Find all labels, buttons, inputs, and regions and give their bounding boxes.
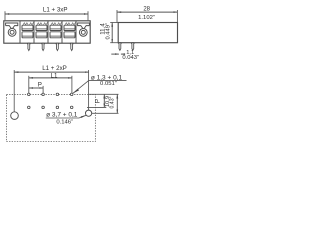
solder hole row2 pin4 (70, 106, 73, 109)
svg-text:P: P (94, 99, 101, 103)
extension line left (116, 10, 118, 23)
left flange screw hole inner (10, 30, 14, 34)
svg-text:0.051”: 0.051” (100, 81, 117, 87)
svg-text:L1 + 2xP: L1 + 2xP (42, 65, 67, 72)
svg-text:0.146”: 0.146” (56, 119, 73, 125)
extension line right to mounting hole (88, 70, 90, 110)
leader dia 1,3 diagonal (73, 80, 89, 93)
pole 3 clamp details (50, 23, 63, 38)
solder pin 3 front (56, 43, 60, 50)
connector body outline (4, 21, 90, 43)
svg-text:0.043”: 0.043” (122, 55, 139, 61)
mounting hole right (86, 110, 92, 116)
solder hole row2 pin1 (28, 106, 31, 109)
dimension line L1 (29, 77, 72, 79)
solder pin 1 front (27, 43, 31, 50)
extension line left (4, 11, 6, 20)
svg-text:0.449”: 0.449” (105, 23, 111, 40)
pole divider 3 (47, 21, 49, 43)
extension line bottom for 11,4 (110, 42, 118, 44)
left flange banner (6, 23, 18, 28)
extension line L1 left (28, 76, 30, 93)
pole divider 2 (33, 21, 35, 43)
right flange banner (78, 23, 90, 28)
right side extension row1 (88, 93, 118, 95)
dimension line 10,9 vertical (116, 94, 118, 113)
pole 2 clamp details (36, 23, 49, 38)
extension line L1 right (71, 76, 73, 93)
dimension 1,1 arrows (111, 53, 119, 55)
solder hole row1 pin2 (42, 93, 45, 96)
dashed board outline (7, 94, 96, 141)
pole divider 1 (19, 21, 21, 43)
pole 4 clamp details (64, 23, 77, 38)
side pin row 1 (118, 43, 121, 51)
mounting hole left (11, 112, 19, 120)
extension line left to mounting hole (13, 70, 15, 112)
right side extension row2 (87, 106, 106, 108)
right side extension mounting hole (92, 112, 119, 114)
dimension line P (29, 87, 43, 89)
solder hole row1 pin4 (70, 93, 73, 96)
leader dia 3,7 underline (46, 117, 79, 119)
svg-text:P: P (38, 81, 42, 88)
solder hole row2 pin3 (56, 106, 59, 109)
pole 1 clamp details (22, 23, 35, 38)
svg-text:ø 3,7 + 0,1: ø 3,7 + 0,1 (46, 111, 78, 118)
extension line right (87, 11, 89, 20)
dimension line P vertical (103, 94, 105, 107)
svg-text:L1 + 3xP: L1 + 3xP (43, 6, 68, 13)
pole divider 4 (61, 21, 63, 43)
right flange screw hole outer (79, 29, 87, 37)
solder pin 4 front (70, 43, 74, 50)
dimension line 11,4 (111, 23, 113, 43)
extension line top for 11,4 (110, 22, 118, 24)
dimension line L1+2xP (14, 71, 88, 73)
side pin row 2 (131, 43, 134, 51)
solder hole row2 pin2 (42, 106, 45, 109)
extension line right (176, 10, 178, 23)
dimension line L1+3xP (5, 13, 88, 15)
solder hole row1 pin3 (56, 93, 59, 96)
pole divider 5 (75, 21, 77, 43)
svg-text:0.43”: 0.43” (110, 96, 116, 108)
solder pin 2 front (41, 43, 45, 50)
side view body (118, 23, 177, 43)
solder hole row1 pin1 (28, 93, 31, 96)
leader dia 3,7 diagonal (79, 115, 86, 118)
left flange screw hole outer (8, 28, 16, 36)
leader dia 1,3 underline (89, 79, 127, 81)
svg-text:28: 28 (143, 6, 150, 12)
svg-text:1.102”: 1.102” (138, 15, 155, 21)
dimension line 28 (117, 11, 177, 13)
extension line P right (42, 86, 44, 93)
right flange screw hole inner (81, 30, 85, 34)
